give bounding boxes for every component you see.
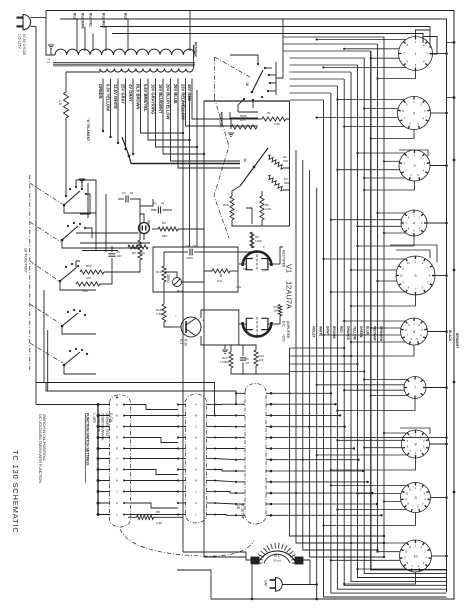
svg-text:5.6V BRN/YEL: 5.6V BRN/YEL [143, 84, 148, 112]
switch 3B filament selector [243, 63, 271, 101]
wire socket bus verticals [317, 37, 447, 599]
capacitor C6 [240, 352, 250, 370]
svg-text:M 1: M 1 [274, 554, 280, 558]
svg-text:2. EMISSION: 2. EMISSION [96, 413, 100, 433]
svg-text:R10: R10 [132, 246, 138, 250]
svg-text:C: C [195, 425, 197, 429]
wire inner frame bus [60, 19, 447, 592]
switch 2A section 3 [59, 263, 79, 282]
svg-text:DC VOLTAGES TAKEN WITH FUNCTIO: DC VOLTAGES TAKEN WITH FUNCTION [38, 414, 43, 483]
tube V1B dc amplifier [239, 317, 280, 338]
svg-text:BRN/WHT: BRN/WHT [455, 333, 459, 348]
svg-text:12.6V WHITE: 12.6V WHITE [113, 84, 118, 109]
box amplifier block [153, 247, 238, 292]
svg-text:4. SHORT TEST: 4. SHORT TEST [105, 413, 109, 437]
label BLACK bus [448, 330, 452, 342]
svg-text:SWITCH IN CAL POSITION.: SWITCH IN CAL POSITION. [42, 414, 47, 460]
wire fan-in to bus tops [283, 37, 384, 100]
wire 3B feeds [222, 112, 258, 126]
switch 2A section 4 [61, 309, 86, 327]
transformer T1 core [53, 63, 195, 66]
svg-text:K: K [195, 501, 197, 505]
svg-text:D: D [116, 436, 118, 440]
svg-text:5: 5 [414, 274, 416, 278]
resistor R9 120K vertical [250, 232, 262, 248]
resistor R15 1MEG [220, 352, 233, 368]
resistor R13 5K [156, 266, 166, 282]
label +9V [236, 285, 241, 289]
svg-text:BLK: BLK [124, 13, 128, 21]
wire mid verticals [256, 101, 385, 558]
label BRN/WHT bus [455, 333, 459, 348]
svg-text:1 MEG: 1 MEG [220, 360, 230, 364]
svg-text:BLK/GRN: BLK/GRN [81, 13, 85, 29]
neon lamp NE-2 [139, 220, 151, 234]
tube socket V10 [400, 540, 432, 572]
svg-text:3.3K: 3.3K [156, 521, 162, 525]
svg-text:B: B [116, 414, 118, 418]
svg-text:470: 470 [283, 159, 288, 163]
wire contacts common verticals [88, 183, 106, 252]
wire wafer 1B to 1C steps [131, 405, 179, 515]
wire 3B contact leads [230, 19, 283, 112]
wire long feed 382 [36, 383, 215, 416]
wire wafer 1C to 2B steps [215, 404, 236, 515]
resistor R25 5000 1W [228, 114, 257, 136]
wire secondary taps [102, 79, 240, 169]
resistor R3 vertical [260, 196, 271, 220]
label secondary wire colors [98, 84, 192, 120]
wire heater bus upper [100, 27, 430, 49]
meter M1 [251, 543, 303, 564]
svg-text:BLK/RED: BLK/RED [102, 13, 106, 29]
svg-text:“B” LOAD: “B” LOAD [219, 112, 223, 128]
linkage wafer dashed [120, 529, 254, 556]
svg-text:10K: 10K [274, 309, 279, 313]
svg-text:C4: C4 [185, 244, 189, 248]
resistor R18 2.2K vertical [156, 304, 166, 322]
wire socket1 top jog [416, 30, 438, 54]
capacitor C1 [151, 201, 172, 214]
svg-text:NE-2: NE-2 [147, 220, 151, 227]
tube socket V5 [396, 256, 435, 295]
switch wafer 1B [110, 395, 131, 527]
wire heater bus lower [112, 34, 423, 44]
svg-text:5. CAL: 5. CAL [109, 413, 113, 423]
note dc voltages [38, 414, 47, 483]
fuse F1 1A [58, 72, 69, 197]
tube socket V2 [398, 97, 431, 130]
svg-text:BROWN: BROWN [332, 326, 336, 339]
svg-text:K: K [116, 501, 118, 505]
svg-text:BLUE: BLUE [366, 326, 370, 335]
svg-text:TC 130 SCHEMATIC: TC 130 SCHEMATIC [11, 450, 20, 534]
svg-text:.02: .02 [129, 191, 134, 195]
tube V1A rectifier [239, 245, 280, 271]
switch 2B filament [122, 137, 240, 164]
label 2B B SETUP [236, 503, 245, 519]
svg-text:50 µA: 50 µA [273, 559, 281, 563]
wire wafer 2B contacts [235, 392, 272, 517]
tube socket V1 [399, 37, 433, 71]
svg-text:+9V: +9V [236, 285, 241, 289]
wire mid connects [76, 258, 112, 284]
resistor R6 82K [158, 221, 178, 238]
svg-text:F: F [116, 457, 118, 461]
svg-text:ORANGE: ORANGE [346, 326, 350, 340]
resistor R8 3.3K [128, 510, 183, 525]
svg-text:VIOLET: VIOLET [312, 326, 316, 338]
svg-text:4V GRAY: 4V GRAY [128, 84, 133, 102]
transformer T1 primary [47, 49, 196, 63]
tube socket V8 [402, 430, 430, 458]
svg-text:T 1: T 1 [47, 58, 51, 63]
wire meter leads [177, 552, 318, 600]
wire wafer link verticals [183, 380, 204, 557]
boundary B LOAD dashed [214, 97, 229, 238]
svg-text:.047: .047 [116, 254, 122, 258]
svg-text:+20V: +20V [282, 334, 286, 343]
svg-text:E: E [116, 447, 118, 451]
svg-text:10: 10 [413, 554, 417, 558]
svg-text:"A" FILAMENT: "A" FILAMENT [86, 118, 90, 141]
svg-text:700V: 700V [186, 256, 193, 260]
switch ganging dash-dot [30, 175, 63, 370]
resistor R19 470 [80, 264, 104, 280]
svg-text:+: + [202, 318, 205, 323]
label A FILAMENT [86, 118, 90, 141]
svg-text:5.6K: 5.6K [82, 289, 88, 293]
svg-text:R8: R8 [156, 510, 160, 514]
svg-text:.04: .04 [245, 361, 249, 365]
svg-text:C1: C1 [153, 201, 157, 205]
svg-text:D.C.: D.C. [282, 321, 286, 328]
tube socket V3 [399, 150, 430, 181]
tube socket V9 [401, 483, 431, 513]
wire wafer 1B contacts [97, 397, 131, 517]
resistor R2 diagonal [268, 155, 288, 169]
tube socket V4 [401, 210, 427, 236]
svg-text:3. GRID LEAKAGE: 3. GRID LEAKAGE [101, 413, 105, 441]
svg-text:CAL: CAL [217, 279, 223, 283]
switch wafer 1C [186, 394, 207, 523]
svg-text:BLK/YEL: BLK/YEL [89, 13, 93, 28]
svg-text:R26: R26 [223, 203, 229, 207]
svg-text:2.2K: 2.2K [156, 312, 162, 316]
resistor R10 22K vertical [132, 240, 142, 260]
wire socket5 wrap [390, 245, 437, 262]
svg-text:2.2K: 2.2K [274, 122, 280, 126]
resistor R26 vertical [223, 196, 234, 220]
svg-text:3A: 3A [243, 158, 247, 163]
svg-text:E: E [195, 447, 197, 451]
svg-text:GREEN: GREEN [98, 84, 103, 99]
svg-text:CAP: CAP [264, 580, 268, 587]
wire left feed to wafer 1B [36, 404, 98, 406]
svg-text:M 1: M 1 [179, 339, 183, 345]
svg-text:BLK BROWN: BLK BROWN [135, 84, 140, 110]
svg-text:2.2K: 2.2K [265, 207, 271, 211]
svg-text:1: 1 [414, 52, 416, 56]
resistor R4 diagonal [268, 175, 289, 191]
svg-text:2B: 2B [236, 505, 240, 509]
capacitor C2 .02 [118, 191, 137, 203]
svg-text:F: F [195, 457, 197, 461]
svg-text:8: 8 [414, 442, 416, 446]
svg-text:R13: R13 [156, 270, 162, 274]
note function switch settings [85, 413, 113, 483]
svg-text:6.3V YELLOW: 6.3V YELLOW [105, 84, 110, 111]
wire long feed 391 [46, 383, 236, 405]
svg-text:FUNCTION SWITCH SETTINGS: FUNCTION SWITCH SETTINGS [86, 413, 91, 466]
svg-text:R19: R19 [86, 264, 92, 268]
ground transformer shield [48, 45, 54, 55]
svg-text:7: 7 [414, 386, 416, 390]
wire 3A net [231, 101, 290, 226]
svg-text:V1: V1 [285, 264, 294, 273]
svg-text:26V BLUE: 26V BLUE [173, 84, 178, 104]
resistor R16 [254, 350, 264, 366]
svg-text:AMPLIFIER: AMPLIFIER [286, 321, 290, 339]
svg-text:R1: R1 [267, 111, 271, 115]
svg-text:5000: 5000 [240, 114, 247, 118]
svg-text:680: 680 [284, 181, 289, 185]
wire amplifier connections [104, 199, 283, 345]
wire switch feeds right [76, 233, 150, 251]
svg-text:2A "FUNCTION": 2A "FUNCTION" [24, 248, 28, 274]
wire socket8 wrap [400, 428, 430, 434]
svg-text:RED: RED [339, 326, 343, 333]
svg-text:H: H [195, 479, 197, 483]
svg-text:50-60 CYCLE: 50-60 CYCLE [22, 34, 26, 56]
label DC AMPLIFIER [282, 321, 291, 343]
wire bottom frame junction [315, 584, 318, 600]
capacitor C5 .047 [108, 246, 122, 258]
svg-text:470: 470 [86, 276, 91, 280]
svg-text:.02: .02 [160, 201, 165, 205]
svg-text:R5: R5 [132, 251, 136, 255]
svg-text:16V BLU/GRNT: 16V BLU/GRNT [158, 84, 163, 114]
svg-text:6: 6 [413, 330, 415, 334]
capacitor C4 [183, 244, 200, 260]
transistor M1 [172, 314, 205, 346]
svg-text:C: C [116, 425, 118, 429]
svg-text:3: 3 [413, 164, 415, 168]
label V1 12AU7A [285, 264, 294, 309]
ground lower cluster [222, 345, 228, 353]
resistor R20 5.6K [76, 282, 100, 293]
svg-text:R6: R6 [162, 221, 166, 225]
label primary wire colors [73, 13, 128, 29]
svg-text:YELLOW: YELLOW [352, 326, 356, 340]
svg-text:BLK: BLK [73, 13, 77, 21]
svg-text:10K: 10K [259, 358, 264, 362]
resistor R1 [262, 111, 286, 126]
svg-text:.02: .02 [192, 244, 197, 248]
svg-text:C2: C2 [122, 191, 126, 195]
switch wafer 2B [245, 384, 266, 525]
label 81V [243, 267, 248, 271]
wire filament bus verticals [183, 90, 204, 391]
svg-text:105-125V: 105-125V [18, 34, 22, 49]
switch 3A rotor [240, 148, 268, 186]
svg-text:R12: R12 [177, 289, 183, 293]
svg-text:D-16: D-16 [184, 339, 188, 346]
svg-text:RED/BLK: RED/BLK [194, 42, 198, 58]
switch 2A section 1 [63, 179, 96, 214]
wire lower cluster [225, 345, 256, 374]
label bus wire colors [312, 326, 383, 342]
switch 2A section 2 [61, 222, 92, 241]
svg-text:12AU7A: 12AU7A [285, 281, 294, 309]
svg-text:120K: 120K [255, 239, 262, 243]
svg-text:WHITE: WHITE [318, 326, 322, 336]
svg-text:H: H [116, 479, 118, 483]
wire socket taps to bus [322, 71, 415, 586]
svg-text:"B" SETUP: "B" SETUP [241, 503, 245, 519]
jack CAP [264, 578, 283, 592]
svg-text:D: D [195, 436, 197, 440]
tube socket V7 [404, 377, 426, 399]
transformer T1 secondary [100, 69, 193, 73]
wire fuse top to secondary [66, 69, 100, 73]
svg-text:10V GRAY/ORG: 10V GRAY/ORG [150, 84, 155, 114]
potentiometer R12 ZERO [166, 274, 183, 293]
svg-text:1 A: 1 A [58, 100, 62, 106]
title TC 130 SCHEMATIC [11, 450, 20, 534]
svg-text:A: A [116, 403, 118, 407]
svg-text:9: 9 [414, 496, 416, 500]
label 2A FUNCTION [24, 248, 28, 274]
wire sockets to black bus [426, 41, 455, 557]
label line voltage [18, 34, 26, 56]
resistor R5 82K [128, 245, 148, 255]
svg-text:1. OFF: 1. OFF [92, 413, 96, 423]
svg-text:4: 4 [413, 221, 415, 225]
linkage 3B dash-dot [215, 57, 250, 97]
svg-text:3B: 3B [245, 82, 249, 87]
svg-text:B: B [195, 414, 197, 418]
wire frame left vertical to primary [46, 11, 55, 56]
svg-text:GRAY: GRAY [326, 326, 330, 336]
label RECTIFIER [282, 250, 286, 268]
svg-text:GREEN: GREEN [359, 326, 363, 338]
svg-text:25V GRAY: 25V GRAY [120, 84, 125, 104]
svg-text:BLACK: BLACK [448, 330, 452, 342]
wire wafer rows to bus [271, 392, 448, 516]
label RED/BLK lead [194, 42, 198, 69]
svg-text:A: A [195, 403, 197, 407]
wire function switch column [44, 205, 140, 391]
wire heavy filament feed [204, 100, 290, 102]
svg-text:ZERO: ZERO [166, 274, 170, 283]
AC line plug [17, 15, 47, 30]
wire left vertical from plug [35, 26, 37, 404]
tube socket V6 [401, 318, 428, 345]
wire primary taps [77, 11, 190, 52]
switch 2A section 5 [63, 348, 88, 366]
potentiometer CAL [212, 269, 230, 283]
wire bus to socket stubs [316, 38, 408, 570]
svg-text:20V BLU/YELLOW: 20V BLU/YELLOW [165, 84, 170, 120]
svg-text:82K: 82K [162, 234, 167, 238]
wire socket3 wrap [399, 150, 428, 156]
wire wafer 1C contacts [177, 403, 216, 517]
svg-text:2: 2 [413, 111, 415, 115]
